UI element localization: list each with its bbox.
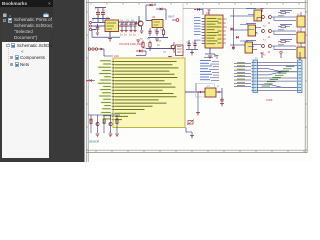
transistor Q2 xyxy=(171,42,175,53)
resistor R6 xyxy=(278,41,290,43)
transistor Q7 xyxy=(96,122,99,126)
svg-text:SENSOR: SENSOR xyxy=(89,141,99,144)
schematic sheet xyxy=(85,0,312,162)
connector P1 xyxy=(252,60,258,93)
power flag xyxy=(204,56,218,60)
designator xyxy=(266,99,273,102)
capacitor C5 xyxy=(124,24,127,32)
diode D2 xyxy=(156,8,166,11)
ground xyxy=(136,40,140,43)
wire section divider xyxy=(183,3,305,58)
wire charger gnd rail xyxy=(148,37,168,39)
connector J1 xyxy=(89,21,105,30)
opto U4 xyxy=(254,10,262,21)
wire regulator output xyxy=(119,22,138,26)
wire xyxy=(299,52,301,60)
capacitor C10 xyxy=(187,40,190,49)
net labels U10 right xyxy=(200,61,219,81)
resistor R2 xyxy=(142,41,144,49)
net label VCC_3V3 xyxy=(119,42,143,46)
transistor pair Q4 xyxy=(262,29,272,33)
red mark xyxy=(263,37,270,42)
value text specks xyxy=(92,19,301,88)
relay K1 xyxy=(176,45,184,56)
power flag xyxy=(260,51,282,58)
svg-text:U1: U1 xyxy=(106,16,110,20)
wire lower rail xyxy=(92,30,120,38)
ground xyxy=(208,56,212,59)
net labels xyxy=(246,9,292,11)
net labels bus xyxy=(262,67,295,86)
ground xyxy=(96,33,99,36)
transistor Q8 xyxy=(109,122,112,126)
diode D5 xyxy=(231,28,234,31)
wire xyxy=(198,88,222,112)
capacitor C8 xyxy=(148,28,151,36)
wire bus fan xyxy=(258,63,298,91)
ground xyxy=(155,39,159,42)
svg-text:U10: U10 xyxy=(114,55,119,58)
resistor R10 xyxy=(116,119,118,124)
diode D7 xyxy=(232,47,235,50)
diode D4 xyxy=(87,79,96,82)
diode D3 xyxy=(194,8,203,15)
capacitor C12 xyxy=(220,99,223,103)
resistor R5 xyxy=(278,26,290,28)
ground xyxy=(190,136,194,139)
wire xyxy=(186,50,198,53)
wire cluster xyxy=(248,28,296,35)
resistor R4 xyxy=(278,12,290,14)
ground xyxy=(140,31,144,34)
transistor Q1 xyxy=(135,16,143,30)
crystal Y1 xyxy=(196,84,217,98)
net label xyxy=(89,141,99,144)
connector J6 xyxy=(88,48,113,56)
capacitor C3 xyxy=(96,24,99,32)
resistor R9 xyxy=(103,119,105,124)
svg-text:VCC3V3 GND_PWR: VCC3V3 GND_PWR xyxy=(119,42,143,46)
opto U5 xyxy=(248,25,256,36)
svg-text:VBAT: VBAT xyxy=(168,16,175,19)
resistor R1 xyxy=(162,28,164,37)
wire U3 bottom xyxy=(205,48,215,57)
power flag xyxy=(208,10,211,15)
microcontroller U10 xyxy=(113,55,185,128)
red mark xyxy=(263,23,270,28)
wire U10 bottom xyxy=(186,128,192,136)
net labels xyxy=(246,24,292,25)
capacitor C6 xyxy=(129,24,132,32)
wire bottom-left rails xyxy=(88,115,120,133)
wire U3 left pins xyxy=(202,19,206,44)
power flag VBAT xyxy=(168,16,179,22)
wire cluster xyxy=(248,13,296,21)
red mark xyxy=(263,52,270,57)
wire charger input xyxy=(146,5,166,21)
net labels U10 left xyxy=(97,60,113,120)
capacitor C7 xyxy=(133,24,136,32)
capacitor C9 xyxy=(155,28,158,36)
diode D1 xyxy=(146,4,156,7)
svg-text:CON1: CON1 xyxy=(266,99,273,102)
value labels xyxy=(120,22,137,37)
connector P2 xyxy=(298,60,303,93)
ground xyxy=(108,39,112,42)
net labels xyxy=(246,40,292,41)
opto U6 xyxy=(245,42,253,53)
resistor R8 xyxy=(90,119,92,124)
thermistor RT1 xyxy=(187,120,194,126)
wire feed lines xyxy=(230,9,254,50)
ground xyxy=(190,53,194,56)
capacitor C1 xyxy=(95,8,100,19)
transistor pair Q5 xyxy=(262,44,272,48)
wire U10 right xyxy=(185,83,205,92)
wire sheet border ticks xyxy=(86,3,307,153)
net labels feed xyxy=(240,24,248,41)
connector J2 xyxy=(297,12,305,27)
wire left feeds xyxy=(234,63,251,87)
ground xyxy=(96,134,119,137)
microcontroller U3 xyxy=(205,12,223,48)
ground xyxy=(220,104,224,107)
diode D6 xyxy=(236,36,239,39)
wire U3 right pins xyxy=(223,19,226,43)
power flag xyxy=(261,9,264,12)
transistor pair Q3 xyxy=(262,15,272,19)
ground xyxy=(196,113,200,116)
capacitor C11 xyxy=(193,40,196,49)
wire cluster xyxy=(248,45,296,50)
red mark xyxy=(200,91,220,93)
charger U2 xyxy=(152,16,163,28)
wire mid band xyxy=(136,49,175,56)
red mark xyxy=(90,119,105,123)
wire vcc input xyxy=(92,8,110,23)
capacitor C4 xyxy=(120,24,123,32)
connector J4 xyxy=(297,43,305,58)
capacitor C2 xyxy=(101,8,106,18)
connector J3 xyxy=(297,28,305,43)
ground xyxy=(168,57,172,60)
left margin marks xyxy=(109,130,111,138)
regulator U1 xyxy=(105,16,119,32)
resistor R3 xyxy=(149,41,151,49)
led DS1 xyxy=(136,47,146,53)
wire sheet outer frame xyxy=(86,0,307,162)
net labels U3 left xyxy=(194,18,201,40)
